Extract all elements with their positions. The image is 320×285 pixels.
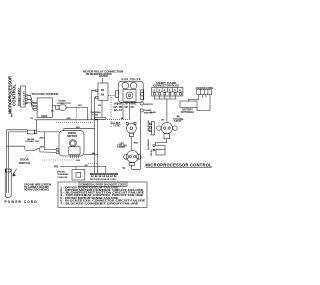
svg-text:MICROPROCESSOR CONTROL: MICROPROCESSOR CONTROL <box>145 162 212 167</box>
svg-text:TRANSFORMER: TRANSFORMER <box>31 92 59 96</box>
svg-text:CONN 9M: CONN 9M <box>57 177 67 179</box>
right bus wire <box>139 112 141 169</box>
svg-text:4M: 4M <box>114 109 117 112</box>
dotted wire <box>56 121 93 123</box>
svg-text:BATTERY: BATTERY <box>182 108 193 111</box>
svg-text:TH: TH <box>122 168 125 170</box>
svg-text:3M RD/WH: 3M RD/WH <box>148 139 150 150</box>
relay connector pins <box>95 90 98 92</box>
dashed drop <box>75 108 77 123</box>
svg-text:2M: 2M <box>125 104 128 106</box>
ground terminal box <box>72 169 85 180</box>
legend rows <box>60 186 145 205</box>
svg-text:4M: 4M <box>121 117 124 120</box>
svg-text:T-STAT: T-STAT <box>174 120 182 123</box>
wire t-stat tab down <box>155 139 166 145</box>
svg-text:BU: BU <box>131 107 135 109</box>
ground terminal label <box>57 172 69 179</box>
drop to inline connector 2 <box>35 120 37 130</box>
microprocessor control title <box>145 162 212 167</box>
motor terminal block <box>69 147 80 155</box>
svg-text:BK: BK <box>119 104 123 106</box>
svg-text:BK: BK <box>11 113 13 117</box>
svg-text:CONNECTOR: CONNECTOR <box>25 141 39 143</box>
wire inline connector 2 to motor <box>37 131 59 133</box>
control board edge connector P1 <box>20 86 25 107</box>
t-stat left pin strip <box>152 122 155 136</box>
inline connector 2 <box>27 130 34 134</box>
wire relay pin to left bus <box>91 91 95 120</box>
gas valve left tab <box>115 91 118 98</box>
flame sensor <box>140 109 143 112</box>
cord cap <box>6 169 11 172</box>
svg-text:POWER CORD: POWER CORD <box>5 200 38 204</box>
svg-text:4M6: 4M6 <box>39 136 44 139</box>
svg-text:1M: 1M <box>30 118 33 120</box>
svg-text:4M: 4M <box>85 164 88 167</box>
transformer T1 <box>37 98 52 117</box>
wire terminal box to strip <box>60 166 106 168</box>
gas valve right tab <box>141 90 144 100</box>
wire to right bus <box>132 165 141 169</box>
motor relay connector on board <box>98 83 108 100</box>
ground wire note <box>24 184 51 191</box>
dotted extension to hi-limit <box>99 118 131 120</box>
svg-text:FUSE: FUSE <box>92 115 98 117</box>
microprocessor connector strip <box>90 173 117 174</box>
thermistor box <box>156 150 165 156</box>
wire debit to t-stat <box>166 99 168 123</box>
svg-text:2M: 2M <box>101 94 104 96</box>
svg-text:GY: GY <box>119 110 123 112</box>
wire motor right to bus <box>84 154 98 156</box>
svg-text:SWITCH: SWITCH <box>19 161 30 165</box>
svg-text:4M5: 4M5 <box>40 145 45 148</box>
wires P1 to transformer <box>27 95 33 103</box>
cycling t-stat (lower) <box>127 151 139 163</box>
hi-limit t-stat <box>126 123 136 133</box>
wire transformer to inline connector <box>53 105 56 107</box>
svg-text:MICROPROCESSOR CONN: MICROPROCESSOR CONN <box>90 179 116 181</box>
svg-text:COIN BD CONN: COIN BD CONN <box>196 88 213 90</box>
debit pin collector wire <box>154 96 176 99</box>
motor bottom pins <box>70 155 78 159</box>
gas valve terminal labels <box>114 104 136 113</box>
wires to door switch and motor <box>44 132 56 150</box>
motor relay connection text <box>83 70 123 78</box>
debit card connector plug <box>152 88 183 97</box>
svg-text:CONTROL: CONTROL <box>11 84 16 106</box>
door switch <box>24 146 26 149</box>
inline connector 1 label <box>57 101 71 106</box>
power supply rotated label <box>19 87 21 106</box>
svg-text:3M: 3M <box>101 90 104 92</box>
legend title <box>79 182 127 187</box>
thermal fuse label <box>90 111 101 116</box>
inline connector 1 <box>56 106 59 110</box>
svg-text:TERMINAL: TERMINAL <box>57 173 69 176</box>
svg-text:7 - BLOCKED COIN/DEBIT CIRCUIT: 7 - BLOCKED COIN/DEBIT CIRCUIT FAILURE <box>60 202 138 205</box>
inline connector 2 label <box>25 139 39 143</box>
gas valve coil A <box>122 82 129 89</box>
hi-limit t-stat label <box>111 123 121 127</box>
svg-text:WH: WH <box>131 104 135 106</box>
power cord <box>6 130 8 170</box>
dashed stub <box>88 163 98 165</box>
ignitor <box>140 102 143 105</box>
svg-text:4M BU/WH: 4M BU/WH <box>147 120 150 131</box>
wire hi-limit to cycling <box>130 136 132 150</box>
svg-text:SENSOR: SENSOR <box>144 112 153 114</box>
gas valve body <box>123 89 136 101</box>
svg-text:IGNITOR: IGNITOR <box>144 104 153 106</box>
gas valve coil B <box>130 82 137 89</box>
svg-text:BOARD: BOARD <box>99 75 108 78</box>
wire power cord to inline connector 2 <box>9 131 28 133</box>
horizontal bus wire <box>34 119 98 121</box>
svg-text:GAS VALVE: GAS VALVE <box>121 77 140 81</box>
svg-text:RD: RD <box>119 107 123 109</box>
dotted line below motor <box>42 159 76 161</box>
svg-text:SCREW (GROUNDING): SCREW (GROUNDING) <box>24 190 49 192</box>
svg-text:60HZ: 60HZ <box>41 115 48 118</box>
debit card connector label <box>153 82 179 87</box>
svg-text:5M: 5M <box>125 107 128 109</box>
power cord label <box>5 200 38 204</box>
svg-text:4M: 4M <box>161 119 164 122</box>
connector P1 pins <box>25 95 27 97</box>
cycling t-stat (right) <box>161 123 172 134</box>
wire to bus <box>66 108 88 120</box>
wire below relay to thermal fuse <box>101 100 103 117</box>
svg-text:T-STAT: T-STAT <box>117 146 125 149</box>
svg-text:T-STAT: T-STAT <box>113 124 121 127</box>
svg-text:4M3: 4M3 <box>134 142 139 145</box>
svg-text:1M: 1M <box>114 104 117 106</box>
svg-text:P08: P08 <box>54 166 59 168</box>
rotated title MICROPROCESSOR CONTROL (left edge) <box>7 76 16 114</box>
svg-text:4M: 4M <box>92 152 95 155</box>
ground arrow <box>13 169 17 176</box>
motor left pins <box>56 149 59 151</box>
door switch label <box>19 158 30 165</box>
coin connector label <box>196 88 213 90</box>
drive motor <box>59 131 84 156</box>
coin connector <box>197 90 212 95</box>
svg-text:TO CABINET GROUND: TO CABINET GROUND <box>24 186 49 189</box>
svg-text:MOTOR: MOTOR <box>67 134 77 138</box>
legend box <box>58 182 147 207</box>
fuse to bottom bus <box>97 119 99 173</box>
svg-text:1M0: 1M0 <box>76 160 81 162</box>
transformer label <box>31 92 59 96</box>
svg-text:3M: 3M <box>114 107 117 109</box>
coin connector pins and wires <box>189 95 199 101</box>
dashed boundary <box>110 97 112 127</box>
cycling t-stat (right) label <box>161 116 183 123</box>
rotated stub label <box>11 113 13 117</box>
gas valve assembly <box>118 81 143 102</box>
svg-text:2M1: 2M1 <box>78 105 83 107</box>
thermistor hooks <box>153 145 155 147</box>
svg-text:9M: 9M <box>98 105 101 107</box>
rotated wire labels <box>147 120 150 150</box>
svg-text:(OPTIONAL): (OPTIONAL) <box>181 111 195 114</box>
svg-text:BU: BU <box>51 111 55 113</box>
wire motor to bus <box>64 129 95 131</box>
gas valve terminals <box>118 102 136 105</box>
cycling t-stat (lower) label <box>117 143 128 149</box>
debit connector pins <box>154 93 156 95</box>
dashed wire relay to valve <box>108 94 115 96</box>
gas valve label <box>121 77 140 81</box>
svg-text:2M BU: 2M BU <box>151 149 153 156</box>
thermal fuse <box>95 117 106 119</box>
leader line <box>102 78 104 83</box>
battery (optional) <box>180 101 197 108</box>
